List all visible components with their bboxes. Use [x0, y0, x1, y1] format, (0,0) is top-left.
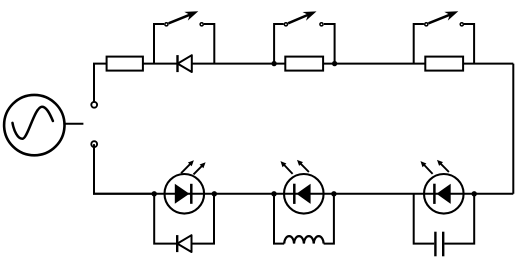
switch S3	[414, 11, 474, 63]
junction dot bottom LED1 left	[152, 191, 157, 196]
switch S1	[154, 11, 214, 63]
LED LED1	[165, 160, 206, 213]
wire top rail	[106, 63, 513, 65]
wire top-left riser	[94, 64, 107, 105]
junction dot top S2 right	[332, 61, 337, 66]
diode D1	[178, 55, 192, 72]
resistor R3	[425, 57, 463, 71]
wire bottom rail	[93, 193, 513, 195]
diode D2 (parallel branch 1)	[154, 194, 214, 252]
junction dot top S2 left	[271, 61, 276, 66]
switch S2	[274, 11, 335, 63]
wire right edge	[512, 64, 514, 194]
wire source lead	[64, 123, 83, 125]
LED LED3	[421, 160, 464, 214]
resistor R2	[285, 57, 323, 71]
junction dot bottom LED2 left	[271, 191, 276, 196]
resistor R1	[107, 57, 143, 71]
wire bottom-left drop	[94, 144, 154, 194]
terminal post top	[91, 102, 97, 108]
junction dot bottom LED1 right	[212, 191, 217, 196]
junction dot bottom LED2 right	[331, 191, 336, 196]
inductor L1 (parallel branch 2)	[274, 194, 334, 244]
terminal post bottom	[91, 141, 97, 147]
junction dot bottom LED3 right	[472, 191, 477, 196]
AC source V1	[4, 95, 64, 155]
LED LED2	[281, 160, 324, 214]
capacitor C1 (parallel branch 3)	[414, 194, 475, 256]
